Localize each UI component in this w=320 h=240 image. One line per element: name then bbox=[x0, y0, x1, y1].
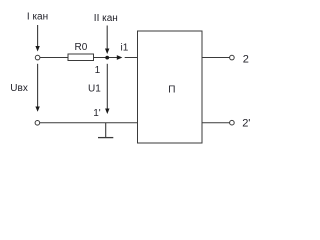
svg-text:П: П bbox=[168, 84, 175, 95]
block П (converter) bbox=[138, 31, 203, 143]
svg-text:R0: R0 bbox=[75, 42, 88, 53]
II кан current arrow bbox=[105, 26, 109, 55]
resistor R0 bbox=[68, 54, 94, 61]
wire: input node to resistor R0 bbox=[40, 57, 68, 59]
voltage arrow U1 bbox=[105, 64, 109, 114]
svg-text:Uвх: Uвх bbox=[10, 83, 28, 94]
node 1 junction bbox=[105, 56, 109, 60]
terminal 2 bbox=[230, 55, 235, 60]
wire: block П to terminal 2' bbox=[202, 122, 230, 124]
current arrow i1 bbox=[117, 55, 123, 60]
ground bbox=[98, 123, 113, 138]
svg-text:1: 1 bbox=[95, 65, 101, 76]
wire: block П to terminal 2 bbox=[202, 57, 230, 59]
svg-text:2: 2 bbox=[243, 53, 249, 65]
wire: bottom from input node to block П bbox=[40, 122, 138, 124]
svg-text:2': 2' bbox=[242, 117, 250, 129]
svg-text:i1: i1 bbox=[121, 43, 129, 54]
I кан current arrow bbox=[35, 25, 39, 52]
node: input terminal bottom-left bbox=[35, 121, 40, 126]
voltage arrow Uвх bbox=[35, 64, 39, 112]
terminal 2' bbox=[230, 120, 235, 125]
svg-text:U1: U1 bbox=[88, 84, 101, 95]
svg-text:II кан: II кан bbox=[94, 13, 118, 24]
svg-text:1': 1' bbox=[93, 108, 101, 119]
svg-text:I кан: I кан bbox=[27, 11, 48, 22]
wire: node 1 to block П bbox=[125, 57, 138, 59]
node: input terminal top-left bbox=[35, 55, 40, 60]
wire: resistor R0 to node 1 bbox=[94, 57, 118, 59]
